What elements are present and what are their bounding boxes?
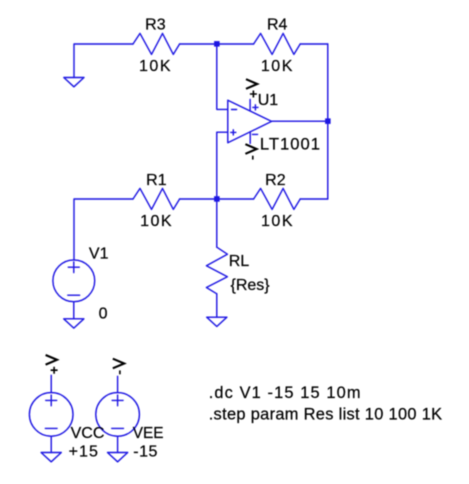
net flag V+ op-amp plus sign <box>250 91 257 98</box>
svg-text:10K: 10K <box>261 58 294 75</box>
net flag V- VEE minus dash <box>119 370 121 374</box>
net flag V+ VCC plus sign <box>51 367 58 374</box>
svg-text:V1: V1 <box>89 246 109 263</box>
op-amp V- polarity marker <box>252 133 257 135</box>
voltage source VEE stub top <box>117 376 119 392</box>
net flag V- above VEE (rotated V) <box>113 359 124 369</box>
wire V1 to ground <box>73 302 75 319</box>
net flag V- op-amp minus dash <box>252 156 254 160</box>
wire VEE to ground <box>117 436 119 452</box>
svg-text:+15: +15 <box>69 443 99 460</box>
V1 minus marker <box>68 294 80 296</box>
svg-text:10K: 10K <box>261 213 294 230</box>
VEE plus marker <box>112 395 123 406</box>
resistor R3 <box>133 33 180 54</box>
svg-text:U1: U1 <box>258 92 279 109</box>
ground under VCC <box>41 453 61 462</box>
voltage source V1 circle <box>53 260 95 302</box>
svg-text:.step param Res list 10 100 1K: .step param Res list 10 100 1K <box>209 406 443 424</box>
wire VCC to ground <box>50 436 52 452</box>
svg-text:VCC: VCC <box>71 425 105 442</box>
voltage source VEE circle <box>96 393 140 437</box>
wire R2 to right column <box>300 198 328 200</box>
ground under V1 <box>64 319 84 328</box>
op-amp V- pin stub <box>249 132 251 144</box>
output node junction <box>325 118 331 124</box>
svg-text:R3: R3 <box>145 16 166 33</box>
svg-text:VEE: VEE <box>133 425 164 442</box>
V1 plus marker <box>68 262 79 273</box>
node A junction <box>214 41 220 47</box>
resistor R1 <box>133 188 180 209</box>
wire right column <box>327 44 329 199</box>
svg-text:R4: R4 <box>267 16 288 33</box>
wire V1 to R1 <box>74 199 133 260</box>
svg-text:0: 0 <box>99 306 108 323</box>
svg-text:10K: 10K <box>139 58 172 75</box>
ground under RL <box>207 317 227 326</box>
resistor RL <box>206 247 227 294</box>
wire R4 to right column <box>300 43 328 45</box>
net flag V+ above op-amp (rotated V) <box>246 79 257 89</box>
net flag V+ above VCC (rotated V) <box>46 355 57 365</box>
op-amp U1 triangle <box>228 100 272 143</box>
op-amp V+ polarity marker <box>253 105 258 110</box>
VCC minus marker <box>45 427 57 429</box>
wire ground1 riser to R3 <box>74 44 133 78</box>
wire RL to ground <box>216 294 218 317</box>
wire node B down to RL <box>216 199 218 247</box>
svg-text:.dc V1 -15 15 10m: .dc V1 -15 15 10m <box>209 384 362 402</box>
svg-text:LT1001: LT1001 <box>260 135 321 154</box>
wire node A to R4 <box>217 43 254 45</box>
svg-text:10K: 10K <box>140 213 173 230</box>
voltage source VCC stub top <box>50 375 52 392</box>
wire node A down to inverting input <box>217 44 228 110</box>
VEE minus marker <box>112 427 124 429</box>
VCC plus marker <box>46 395 57 406</box>
node B junction <box>214 196 220 202</box>
op-amp noninverting input marker <box>231 130 236 135</box>
svg-text:R1: R1 <box>146 172 167 189</box>
wire node B to R2 <box>217 198 254 200</box>
wire op-amp output <box>272 120 328 122</box>
voltage source VCC circle <box>29 393 73 437</box>
svg-text:RL: RL <box>229 253 250 270</box>
svg-text:-15: -15 <box>133 443 158 460</box>
wire R3 to node A <box>180 43 217 45</box>
op-amp V+ pin stub <box>249 100 251 111</box>
wire noninverting input down to node B <box>217 132 228 199</box>
net flag V- below op-amp (rotated V) <box>245 144 256 154</box>
svg-text:{Res}: {Res} <box>231 277 271 294</box>
ground top-left <box>64 78 84 87</box>
svg-text:R2: R2 <box>265 172 286 189</box>
resistor R4 <box>254 33 301 54</box>
wire R1 to node B <box>180 198 217 200</box>
op-amp inverting input marker <box>232 109 237 111</box>
resistor R2 <box>254 188 301 209</box>
ground under VEE <box>108 453 128 462</box>
